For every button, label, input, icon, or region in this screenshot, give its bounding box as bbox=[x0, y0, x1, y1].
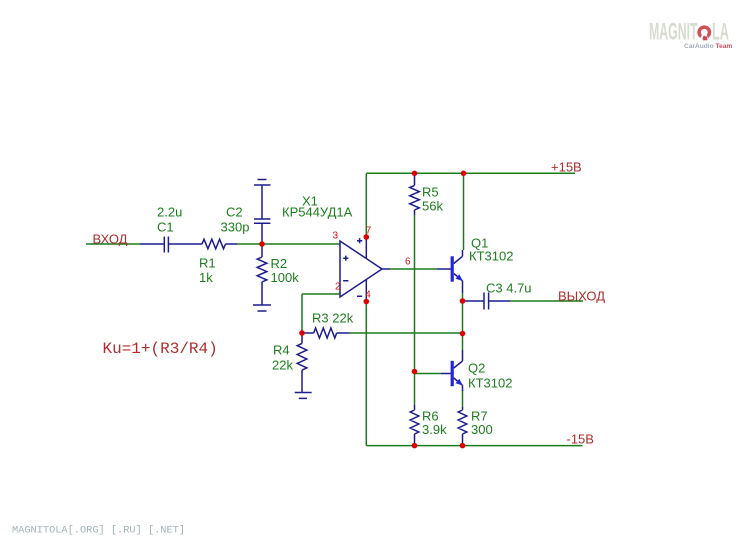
svg-text:2.2u: 2.2u bbox=[157, 205, 182, 220]
svg-text:-15В: -15В bbox=[567, 432, 594, 447]
svg-text:MAGNIT: MAGNIT bbox=[649, 19, 698, 46]
svg-text:22k: 22k bbox=[272, 358, 293, 373]
svg-text:4: 4 bbox=[365, 290, 371, 301]
svg-text:1k: 1k bbox=[199, 270, 213, 285]
svg-text:ВЫХОД: ВЫХОД bbox=[558, 289, 605, 304]
svg-text:Ku=1+(R3/R4): Ku=1+(R3/R4) bbox=[103, 340, 218, 358]
svg-text:C3 4.7u: C3 4.7u bbox=[486, 281, 532, 296]
svg-text:LA: LA bbox=[712, 19, 729, 46]
svg-text:C2: C2 bbox=[226, 205, 243, 220]
svg-text:R2: R2 bbox=[271, 256, 288, 271]
svg-text:C1: C1 bbox=[157, 220, 174, 235]
svg-text:6: 6 bbox=[405, 257, 411, 268]
svg-text:3: 3 bbox=[332, 231, 338, 242]
svg-text:ВХОД: ВХОД bbox=[93, 232, 128, 247]
svg-text:КР544УД1А: КР544УД1А bbox=[282, 205, 353, 220]
svg-text:R3 22k: R3 22k bbox=[312, 311, 354, 326]
svg-text:КТ3102: КТ3102 bbox=[469, 249, 513, 264]
svg-text:100k: 100k bbox=[271, 270, 300, 285]
svg-text:300: 300 bbox=[471, 422, 493, 437]
svg-text:330p: 330p bbox=[221, 220, 250, 235]
svg-text:Q2: Q2 bbox=[468, 361, 485, 376]
svg-text:R4: R4 bbox=[273, 343, 290, 358]
svg-text:MAGNITOLA[.ORG] [.RU] [.NET]: MAGNITOLA[.ORG] [.RU] [.NET] bbox=[12, 525, 185, 537]
svg-text:R1: R1 bbox=[199, 256, 216, 271]
svg-text:7: 7 bbox=[366, 226, 372, 237]
svg-text:+15В: +15В bbox=[551, 160, 582, 175]
svg-text:3.9k: 3.9k bbox=[422, 422, 447, 437]
svg-text:CarAudio Team: CarAudio Team bbox=[684, 43, 732, 50]
svg-text:КТ3102: КТ3102 bbox=[468, 376, 512, 391]
svg-text:R5: R5 bbox=[422, 185, 439, 200]
svg-text:2: 2 bbox=[335, 282, 341, 293]
svg-text:56k: 56k bbox=[422, 199, 443, 214]
